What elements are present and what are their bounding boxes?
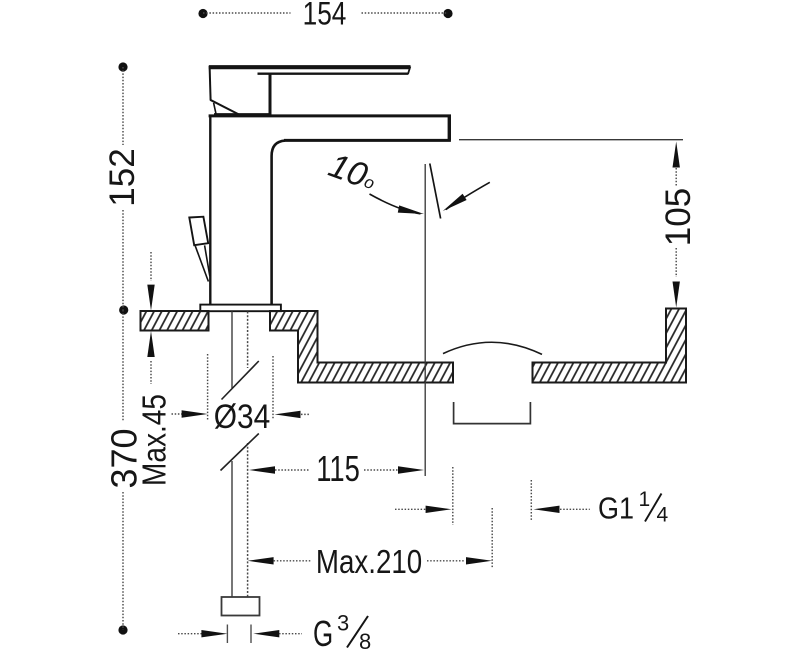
dim 152 left [103, 62, 142, 314]
svg-text:Max.45: Max.45 [136, 394, 173, 486]
dim 115 left line [275, 469, 310, 471]
dim O34 right arrowhead [275, 411, 301, 418]
handle wedge left edge [210, 66, 211, 100]
dim 115 right line [364, 469, 398, 471]
10deg slanted line [430, 164, 441, 219]
centerline [424, 164, 426, 476]
fraction slash [347, 616, 368, 648]
dim O34 right witness line [272, 356, 274, 420]
hose break slash 1 [222, 361, 259, 400]
dim 105 up arrowhead [673, 142, 680, 168]
dim G1-1/4 right witness line [530, 480, 532, 521]
dim O34 left witness line [207, 354, 209, 421]
fraction slash [645, 494, 662, 522]
wedge bottom thick [214, 113, 272, 116]
svg-text:3: 3 [337, 611, 349, 636]
dim G3/8 right witness tick [250, 625, 252, 644]
dim Max.45 up arrowhead [147, 331, 154, 357]
dim Max.210 [248, 508, 493, 581]
lever underside [258, 72, 409, 74]
svg-text:Ø34: Ø34 [214, 397, 271, 435]
pop-up knob [189, 217, 208, 246]
spout bottom [284, 139, 451, 142]
dim G3/8 left witness tick [226, 625, 228, 644]
svg-text:G1: G1 [598, 492, 634, 526]
dim 115 [249, 448, 424, 489]
faucet body top / spout top [209, 114, 451, 117]
lever right end cap [408, 67, 410, 75]
dim Max.210 left line [274, 560, 312, 562]
dim 105 lower line [675, 248, 677, 277]
10deg right arc [446, 182, 490, 209]
dim 152 dotted line [122, 67, 124, 310]
dim O34 right tail line [301, 413, 311, 415]
dim G1-1/4 left witness line [452, 467, 454, 525]
dim Max.210 left arrowhead [248, 557, 274, 564]
dim G3/8 left lead line [178, 633, 203, 635]
dim 105 upper line [675, 168, 677, 186]
faucet handle lever top [209, 65, 411, 69]
svg-text:115: 115 [316, 448, 360, 489]
svg-text:1: 1 [639, 488, 651, 511]
pop-up rod taper right [205, 245, 210, 276]
spout right edge [448, 115, 451, 140]
dim G1 1/4 [395, 467, 669, 527]
svg-text:G: G [313, 614, 333, 650]
dim 154 dotted line [203, 12, 448, 14]
dim 115 right arrowhead [398, 466, 424, 473]
dim 154 top [198, 0, 452, 32]
basin right wall and bottom [533, 309, 687, 383]
svg-text:8: 8 [359, 629, 371, 650]
dim Max.45 down arrowhead [147, 285, 154, 311]
dim Max.45 [136, 252, 173, 486]
dim Max.210 right line [427, 560, 464, 562]
dim 154 right datum dot [443, 9, 452, 18]
dim G3/8 lead line to label [279, 633, 302, 635]
dim Max.45 upper extension line [150, 252, 152, 281]
svg-text:Max.210: Max.210 [316, 544, 422, 581]
hose right edge dotted [247, 312, 249, 597]
hose break slash 2 [221, 434, 259, 471]
10deg left arc [370, 194, 421, 214]
dim Max.45 lower extension line [150, 361, 152, 384]
svg-text:10o: 10o [324, 146, 382, 198]
dim 105 right [459, 140, 698, 308]
dim O34 left tail line [172, 413, 183, 415]
hose left edge [231, 312, 233, 597]
dim G3/8 right arrowhead [253, 630, 279, 637]
dim 115 left arrowhead [249, 466, 275, 473]
dim 370 bottom datum dot [118, 625, 127, 634]
dim O34 left arrowhead [182, 410, 208, 417]
svg-text:152: 152 [103, 148, 142, 206]
handle wedge diagonal [210, 100, 239, 115]
dim 154 left datum dot [198, 9, 207, 18]
dim G1-1/4 lead line to label [560, 508, 590, 510]
spout level reference line [459, 139, 683, 141]
hose end connector [222, 597, 260, 616]
dim G1-1/4 left lead line [395, 508, 428, 510]
dim O34 [172, 354, 311, 435]
spout inner corner and body right edge [272, 141, 285, 305]
drain tailpiece U [454, 402, 531, 424]
pop-up rod taper left [195, 246, 208, 282]
dim Max.210 witness line [491, 508, 493, 568]
handle wedge inner lip [214, 103, 217, 115]
svg-text:154: 154 [303, 0, 347, 32]
dim 152 bottom datum dot [119, 305, 128, 314]
10deg left arc arrowhead [398, 205, 425, 217]
base plate [200, 305, 281, 312]
dim G3/8 left arrowhead [201, 630, 227, 637]
dim 105 down arrowhead [673, 282, 680, 308]
dim G1-1/4 right arrowhead [534, 506, 560, 513]
basin bottom arc (break line) [443, 342, 542, 354]
dim G1-1/4 left arrowhead [426, 506, 452, 513]
dim 370 left [104, 310, 145, 635]
handle stem [269, 74, 272, 115]
body left edge [209, 115, 211, 304]
dim G 3/8 [178, 611, 371, 650]
dim 370 dotted line [122, 310, 124, 630]
svg-text:4: 4 [657, 504, 669, 527]
dim 152 top datum dot [118, 62, 127, 71]
countertop left slab [141, 311, 209, 331]
10deg right arc arrowhead [441, 194, 467, 214]
countertop middle slab with basin step [270, 311, 453, 383]
dim Max.210 right arrowhead [466, 557, 492, 564]
svg-text:105: 105 [659, 188, 698, 246]
